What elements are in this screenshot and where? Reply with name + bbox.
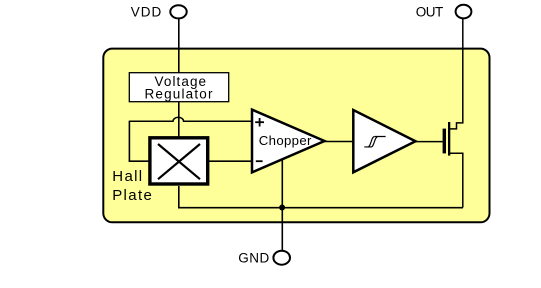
hysteresis symbol: [364, 137, 385, 147]
label Hall Plate: [112, 168, 152, 204]
wire hall plate bottom to rail: [178, 186, 180, 208]
svg-text:Chopper: Chopper: [259, 133, 312, 148]
hall plate element: [150, 138, 208, 184]
plus input mark: [255, 121, 264, 123]
terminal VDD: [170, 5, 186, 18]
svg-text:OUT: OUT: [416, 5, 444, 20]
voltage regulator U1: [129, 73, 228, 102]
terminal GND: [273, 251, 290, 265]
wire hall plate right to chopper minus: [209, 160, 252, 162]
wire chopper out to schmitt in: [324, 141, 353, 143]
wire hall left to chopper plus (with hop): [129, 117, 252, 121]
wire source to rail: [449, 153, 463, 207]
wire left riser: [128, 121, 130, 162]
wire VDD to regulator: [178, 18, 180, 72]
ground rail: [178, 207, 463, 209]
transistor Q1 output MOSFET: [443, 122, 451, 156]
minus input mark: [256, 160, 263, 162]
channel bar: [448, 122, 450, 156]
wire to hall plate left: [129, 160, 149, 162]
op-amp chopper: [252, 110, 325, 173]
IC body (yellow block): [103, 49, 489, 223]
wire drain to OUT: [449, 18, 463, 129]
wire schmitt out to gate: [415, 141, 443, 143]
gate bar: [443, 129, 446, 154]
svg-text:Plate: Plate: [112, 187, 152, 204]
svg-text:Regulator: Regulator: [145, 87, 214, 102]
schmitt trigger U3: [353, 110, 415, 172]
junction dot: [279, 205, 285, 211]
wire chopper ground to GND terminal: [281, 158, 283, 251]
wire regulator to hall plate top: [178, 102, 180, 137]
svg-text:VDD: VDD: [131, 4, 162, 19]
svg-text:GND: GND: [238, 250, 269, 265]
terminal OUT: [456, 5, 472, 19]
